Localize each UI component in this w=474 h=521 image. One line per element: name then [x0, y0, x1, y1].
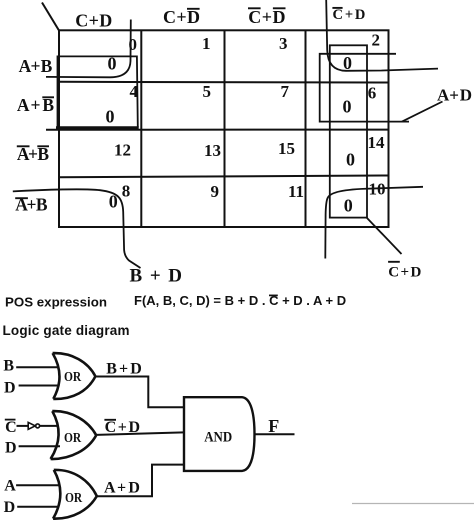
- input wire B: [16, 366, 58, 368]
- svg-text:OR: OR: [64, 430, 81, 445]
- svg-text:F: F: [268, 416, 279, 436]
- group box A+D left (cells 0,4): [58, 56, 138, 127]
- svg-text:14: 14: [368, 133, 386, 152]
- kmap row divider 1: [59, 81, 389, 84]
- input wire Cbar: [17, 425, 29, 427]
- svg-text:B + D: B + D: [106, 361, 142, 378]
- inverter triangle on Cbar input: [28, 422, 35, 429]
- input wire D: [17, 506, 58, 508]
- wire A+D output to AND: [97, 465, 184, 497]
- svg-text:6: 6: [368, 84, 377, 103]
- group box Cbar+D (column 4 cells 2,6,14,10): [330, 45, 367, 217]
- kmap column divider 2: [224, 30, 226, 227]
- svg-text:C + D: C + D: [388, 264, 421, 280]
- inverter bubble: [36, 424, 40, 428]
- svg-text:B + D: B + D: [130, 266, 183, 287]
- wire B+D output to AND: [95, 377, 184, 408]
- pointer line to Cbar+D bottom label: [367, 218, 402, 254]
- svg-text:C + D: C + D: [75, 11, 112, 31]
- svg-text:13: 13: [204, 141, 221, 160]
- svg-text:C: C: [5, 419, 17, 436]
- svg-text:OR: OR: [65, 490, 82, 505]
- kmap row divider 3: [59, 176, 389, 178]
- svg-text:D: D: [5, 439, 17, 456]
- svg-text:C + D: C + D: [333, 7, 366, 23]
- svg-text:11: 11: [288, 182, 304, 201]
- input wire D: [19, 385, 58, 387]
- svg-text:Logic gate diagram: Logic gate diagram: [3, 323, 130, 338]
- kmap column divider 1: [140, 30, 142, 227]
- svg-text:C + D: C + D: [105, 419, 141, 436]
- B+D corner loop at cell 2: [326, 0, 438, 71]
- svg-text:2: 2: [372, 31, 381, 50]
- input wire A: [16, 484, 59, 486]
- svg-text:12: 12: [114, 141, 131, 160]
- svg-text:0: 0: [106, 107, 115, 127]
- OR gate U3 (A+D): [53, 470, 97, 519]
- wire Cbar+D output to AND: [96, 432, 184, 435]
- B+D corner loop at cell 0: [46, 20, 131, 78]
- group box A+D right (cells 2,6): [320, 54, 409, 122]
- svg-text:B: B: [3, 357, 14, 374]
- svg-text:C + D: C + D: [163, 7, 200, 27]
- svg-text:A + D: A + D: [437, 86, 472, 105]
- svg-text:0: 0: [344, 196, 353, 216]
- kmap grid outer border: [59, 30, 389, 227]
- input wire D: [19, 445, 60, 447]
- svg-text:POS expression: POS expression: [5, 294, 107, 309]
- svg-text:0: 0: [343, 97, 352, 117]
- output wire F: [255, 433, 295, 435]
- svg-text:9: 9: [211, 182, 220, 201]
- AND gate U4: [184, 397, 255, 471]
- faint partial line bottom right: [352, 503, 474, 505]
- svg-text:AND: AND: [204, 430, 232, 446]
- svg-text:3: 3: [279, 34, 288, 53]
- svg-text:A: A: [4, 478, 16, 495]
- OR gate U1 (B+D): [53, 353, 96, 399]
- kmap row divider 2: [46, 129, 389, 131]
- OR gate U2 (Cbar+D): [51, 411, 97, 459]
- svg-text:5: 5: [203, 82, 212, 101]
- svg-text:0: 0: [346, 150, 355, 170]
- kmap corner diagonal: [42, 3, 59, 31]
- svg-text:D: D: [4, 499, 16, 516]
- svg-text:A + D: A + D: [104, 480, 140, 497]
- svg-text:F(A, B, C, D) = B + D . C + D: F(A, B, C, D) = B + D . C + D . A + D: [134, 293, 346, 308]
- svg-text:A + B: A + B: [19, 56, 53, 76]
- svg-text:1: 1: [202, 34, 211, 53]
- svg-text:D: D: [4, 379, 16, 396]
- svg-text:OR: OR: [64, 369, 81, 384]
- pointer line to A+D label: [402, 102, 443, 122]
- svg-text:C + D: C + D: [248, 7, 285, 27]
- B+D corner loop at cell 10: [325, 187, 423, 259]
- kmap column divider 3: [305, 30, 307, 227]
- svg-text:7: 7: [281, 82, 290, 101]
- svg-text:15: 15: [278, 139, 295, 158]
- svg-text:8: 8: [122, 182, 131, 201]
- B+D corner loop at cell 8: [13, 189, 141, 268]
